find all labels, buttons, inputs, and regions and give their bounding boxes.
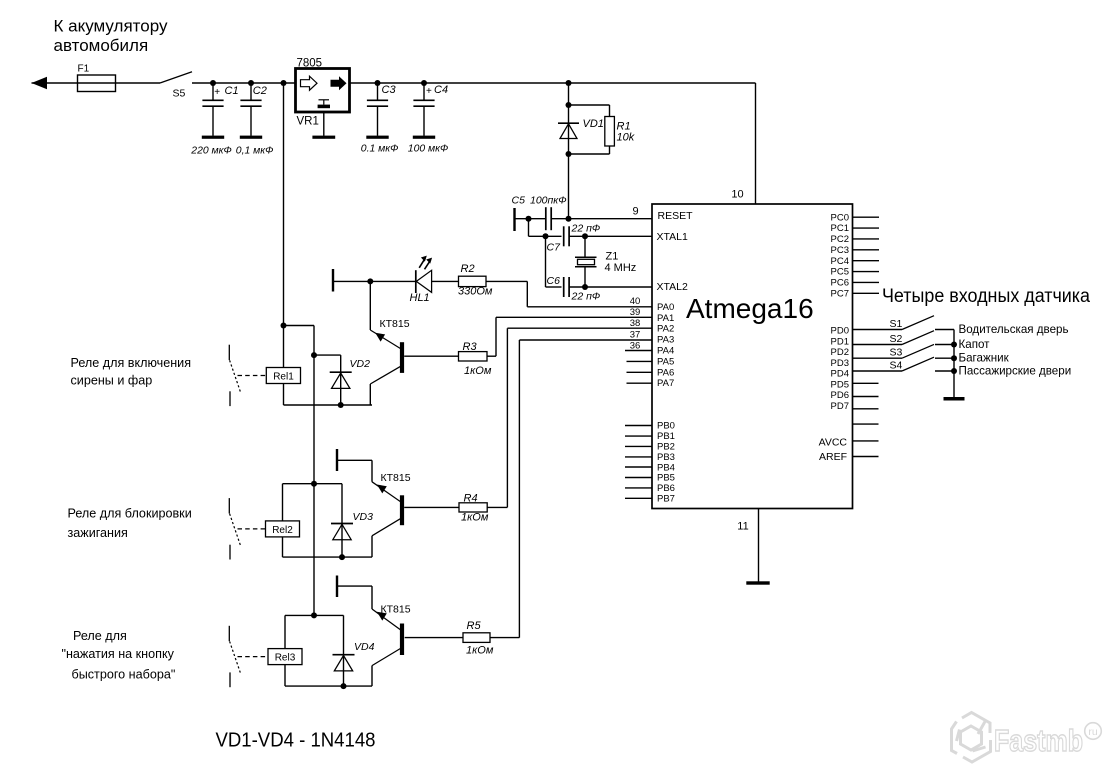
svg-text:C1: C1 [225,85,239,97]
wire - pin 11 GND [758,509,760,582]
fuse F1 [78,75,116,92]
resistor R1 10k [569,104,610,106]
wire - PA1 to R3 [496,316,652,318]
svg-text:VD1-VD4 - 1N4148: VD1-VD4 - 1N4148 [216,730,376,752]
ground - under C1 [202,136,224,139]
transistor KT815 - base bar [400,342,404,373]
svg-text:Rel2: Rel2 [272,525,293,536]
svg-text:Реле для включения: Реле для включения [71,356,192,370]
wire - C4 top lead [423,83,425,100]
wire - PB2 stub [625,445,652,447]
LED HL1 [415,270,417,293]
svg-text:VD1: VD1 [583,118,604,130]
ground - pin 11 [746,581,769,584]
svg-text:C2: C2 [253,85,267,97]
svg-text:Реле для блокировки: Реле для блокировки [68,507,192,521]
wire - C2 bottom lead [250,106,252,136]
wire - down from C5 node [528,219,530,237]
svg-text:R4: R4 [464,493,478,505]
svg-text:PA1: PA1 [657,313,674,324]
node - junction dot Rel1 top [281,323,287,329]
wire - PC1 stub [853,227,880,229]
wire - PC4 stub [853,260,880,262]
node - junction dot transistor collector branch [367,278,373,284]
wire - S2 to sensor bus [935,344,954,346]
node - junction dot 12V branch to relays [281,80,287,86]
svg-text:PD4: PD4 [831,369,849,380]
wire - Rel1 bottom rail [284,404,373,406]
wire - Q3 emitter down [371,666,373,687]
svg-text:PC3: PC3 [831,245,849,256]
svg-text:PA2: PA2 [657,324,674,335]
wire - PC7 stub [853,292,880,294]
svg-text:автомобиля: автомобиля [54,36,149,55]
wire - PA4 stub [625,350,652,352]
switch contact - lower lead [229,672,231,687]
wire - Q1 emitter down [369,384,371,405]
node - junction dot VD4 bottom [341,683,347,689]
wire - C1 bottom lead [212,106,214,136]
ground - under C2 [240,136,262,139]
wire - PB3 stub [625,456,652,458]
wire - to LED [333,280,416,282]
wire - PA6 stub [627,371,653,373]
diode VD2 - cathode bar [330,371,352,373]
ground - VR1 [312,136,335,139]
capacitor C4 plates [413,99,434,101]
svg-text:+: + [214,87,220,98]
svg-text:ru: ru [1088,726,1097,738]
diode VD3 - triangle [333,524,351,539]
svg-text:VD3: VD3 [353,511,374,523]
wire - PD2 to switch S3 [853,357,903,359]
svg-text:10k: 10k [617,132,635,144]
ground - under C4 [413,136,435,139]
node - watermark logo [952,713,991,763]
svg-text:36: 36 [630,340,641,351]
ground - sensor bus [944,397,965,401]
wire - C5 left [515,218,546,220]
svg-text:PB2: PB2 [657,441,675,452]
switch S3 - blade [902,344,934,358]
relay Rel3 - coil top lead [284,615,286,648]
ground - under C3 [366,136,388,139]
svg-text:0,1 мкФ: 0,1 мкФ [236,146,274,157]
wire - PB6 stub [625,487,652,489]
wire - Rel2 bottom rail [283,556,373,558]
wire - PA3 to R5 [519,339,652,341]
svg-text:22 пФ: 22 пФ [571,291,601,303]
svg-text:Z1: Z1 [606,251,619,263]
LED HL1 - emission arrows [419,258,425,268]
relay Rel2 - coil bottom lead [282,537,284,557]
wire - C5 to RESET pin 9 [551,218,652,220]
wire - PD1 to switch S2 [853,344,903,346]
node - terminal bar at C5 [513,208,515,231]
wire - PD4 stub [853,382,879,384]
capacitor C3 plates [367,99,388,101]
svg-text:R5: R5 [467,620,482,632]
wire - C3 bottom lead [377,106,379,136]
wire - R5 to transistor base [405,637,463,639]
svg-text:S3: S3 [890,347,903,359]
wire - PB0 stub [625,425,652,427]
capacitor C6 plates [563,277,565,297]
wire - LED to R2 [432,280,459,282]
node - terminal bar at HL1 feed [332,269,334,292]
wire - pin 10 VCC from 5V rail [755,83,757,204]
wire - R4 to transistor base [404,506,459,508]
svg-text:КТ815: КТ815 [381,472,411,484]
wire - PA7 stub [627,382,653,384]
wire - C6 to XTAL2 [569,286,652,288]
wire - PB7 stub [625,497,652,499]
wire - PD6 stub [853,408,879,410]
wire - PC6 stub [853,281,880,283]
arrow - to battery (left) [32,77,48,89]
svg-text:PB6: PB6 [657,483,675,494]
svg-text:38: 38 [630,318,641,329]
svg-text:S5: S5 [173,88,186,100]
wire - Rel1 top to distribution [284,325,315,327]
capacitor C1 plates [202,99,223,101]
svg-text:C5: C5 [512,195,526,207]
node - junction dot S4 bus [951,368,957,374]
switch S1 - blade [902,316,934,330]
capacitor C2 plates [240,99,261,101]
relay Rel2 - coil top lead [282,484,284,521]
wire - dashed link to relay coil [238,528,267,530]
svg-text:40: 40 [630,296,641,307]
svg-text:XTAL2: XTAL2 [657,281,688,293]
diode VD4 - triangle [334,656,352,671]
wire - PA5 stub [627,360,653,362]
svg-text:PD1: PD1 [831,336,849,347]
svg-text:PB7: PB7 [657,494,675,505]
relay Rel1 - coil bottom lead [283,384,285,406]
node - junction dot VD2 tap [311,352,317,358]
svg-text:9: 9 [632,206,638,218]
svg-text:Fastmb: Fastmb [994,723,1083,758]
svg-text:10: 10 [731,189,743,201]
svg-text:"нажатия на кнопку: "нажатия на кнопку [62,647,175,661]
svg-text:PC1: PC1 [831,223,849,234]
switch contact - blade (dotted) [230,641,241,672]
node - junction dot C4 [421,80,427,86]
transistor KT815 - collector lead [370,330,400,349]
switch contact - lower lead [229,391,231,406]
wire - Rel2 top rail [283,483,343,485]
svg-text:PA4: PA4 [657,346,674,357]
svg-text:0.1 мкФ: 0.1 мкФ [361,143,399,154]
switch contact - upper lead [228,626,230,641]
svg-text:PA0: PA0 [657,302,674,313]
svg-text:R3: R3 [463,341,478,353]
wire - C3 top lead [377,83,379,100]
wire - PC0 stub [853,216,880,218]
wire - PD0 to switch S1 [853,329,903,331]
svg-text:PD7: PD7 [831,401,849,412]
resistor R5 1kOhm [463,633,490,643]
wire - transistor Q1 collector up to LED node [369,281,371,330]
svg-text:Четыре входных датчика: Четыре входных датчика [882,286,1090,307]
diode VD3 - cathode bar [331,523,353,525]
node - junction dot crystal bottom [582,284,588,290]
wire - Rel3 bottom rail [285,685,372,687]
svg-text:PB3: PB3 [657,452,675,463]
svg-text:PB0: PB0 [657,421,675,432]
node - junction dot VD1 branch [566,80,572,86]
svg-text:Водительская дверь: Водительская дверь [959,323,1069,336]
node - junction dot VD2 bottom [338,402,344,408]
capacitor C7 plates [563,226,565,246]
svg-text:PB4: PB4 [657,462,675,473]
svg-text:AREF: AREF [819,451,847,463]
svg-text:PD0: PD0 [831,326,849,337]
node - junction dot Rel2 top [311,481,317,487]
svg-text:220 мкФ: 220 мкФ [190,146,232,157]
wire - S1 to sensor bus [935,329,954,331]
svg-text:зажигания: зажигания [68,526,128,540]
node - junction dot VD1 bottom [566,151,572,157]
svg-text:быстрого набора": быстрого набора" [72,668,176,682]
wire - S5 to regulator input [192,82,296,84]
resistor R3 1kOhm [459,352,488,361]
crystal Z1 4MHz [584,236,586,256]
node - junction dot Rel3 top [311,612,317,618]
wire - PB5 stub [625,477,652,479]
wire - terminal to Q3 [337,585,372,587]
wire - C2 top lead [250,83,252,100]
svg-text:XTAL1: XTAL1 [657,231,688,243]
relay Rel1 - coil box [266,368,300,384]
wire - AREF stub [853,456,879,458]
wire - dashed link to relay coil [238,656,267,658]
svg-text:7805: 7805 [297,58,323,70]
wire - to C7 [529,235,562,237]
switch contact - upper lead [228,498,230,513]
wire - C4 bottom lead [423,106,425,136]
wire - PD3 to switch S4 [853,370,903,372]
svg-text:S4: S4 [890,360,903,372]
node - junction dot C2 [248,80,254,86]
transistor KT815 - arrow [377,612,387,621]
regulator VR1 - output arrow (filled) [331,76,347,90]
resistor R4 1kOhm [459,503,487,512]
transistor KT815 - base bar [400,624,404,656]
svg-text:PC0: PC0 [831,212,849,223]
svg-text:100 мкФ: 100 мкФ [408,143,449,154]
node - junction dot C5 left [526,216,532,222]
wire - R3 to transistor base [404,355,458,357]
node - terminal bar Q3 collector [336,576,338,598]
svg-text:F1: F1 [78,64,90,75]
relay Rel2 - coil box [266,521,300,537]
svg-text:PC4: PC4 [831,256,849,267]
svg-text:Atmega16: Atmega16 [686,293,814,324]
node - junction dot S2 bus [951,342,957,348]
svg-text:11: 11 [737,521,748,533]
wire - R2 to PA0 [486,280,527,282]
svg-text:C4: C4 [434,84,448,96]
wire - PB1 stub [625,435,652,437]
resistor R2 330ohm [459,276,487,286]
svg-text:1кОм: 1кОм [464,365,492,377]
transistor KT815 - arrow [375,333,385,342]
svg-text:39: 39 [630,307,641,318]
svg-text:КТ815: КТ815 [381,604,411,616]
wire - S3 to sensor bus [935,357,954,359]
transistor KT815 - collector lead [372,482,400,502]
diode VD4 vertical lead [343,615,345,686]
svg-text:PC5: PC5 [831,267,849,278]
wire - 5V to reset network [568,83,570,219]
svg-text:VR1: VR1 [297,116,319,128]
svg-text:1кОм: 1кОм [466,645,494,657]
wire - 12V distribution vertical (Rel1..Rel2) [313,326,315,484]
diode VD3 vertical lead [341,484,343,557]
wire - PA2 to R4 [507,327,652,329]
wire - 5V rail [350,82,756,84]
wire - terminal to Q2 [337,459,372,461]
svg-text:сирены и фар: сирены и фар [71,374,153,388]
wire - main 12V feed [32,82,161,84]
node - watermark ru badge [1085,723,1102,740]
wire - Q2 emitter down [371,536,373,557]
wire - AVCC stub [853,440,879,442]
svg-text:КТ815: КТ815 [380,318,410,330]
svg-text:PA6: PA6 [657,367,674,378]
svg-text:S1: S1 [890,318,903,330]
svg-text:C6: C6 [547,275,561,287]
svg-text:PC2: PC2 [831,234,849,245]
wire - sensor common bus [953,330,955,399]
relay Rel1 - coil top lead [283,326,285,368]
node - junction dot C7/C6 branch [543,233,549,239]
switch S2 - blade [902,331,934,345]
svg-text:Rel3: Rel3 [275,653,296,664]
svg-text:Капот: Капот [959,338,991,351]
svg-text:RESET: RESET [658,210,694,222]
diode VD1 [558,122,579,124]
wire - C1 top lead [212,83,214,100]
svg-text:R2: R2 [461,263,475,275]
svg-text:PB1: PB1 [657,431,675,442]
regulator VR1 7805 - body [296,69,350,113]
node - junction dot VD3 bottom [339,554,345,560]
wire - to C6 [546,286,562,288]
svg-text:PA5: PA5 [657,356,674,367]
svg-text:PD6: PD6 [831,390,849,401]
svg-text:PD2: PD2 [831,347,849,358]
wire - Rel3 top rail [285,614,344,616]
svg-text:S2: S2 [890,333,903,345]
transistor KT815 - emitter lead [372,519,400,536]
regulator VR1 - input arrow (open) [301,76,318,90]
diode VD4 - cathode bar [333,654,355,656]
regulator VR1 - inner ground symbol [319,99,330,101]
svg-text:330Ом: 330Ом [458,285,493,297]
node - junction dot crystal top [582,233,588,239]
wire - PC2 stub [853,238,880,240]
svg-text:22 пФ: 22 пФ [571,223,601,235]
switch contact - upper lead [228,345,230,360]
capacitor C5 plates [545,207,547,230]
svg-text:PB5: PB5 [657,473,675,484]
wire - 12V down to Rel1 [283,83,285,326]
svg-text:PD3: PD3 [831,358,849,369]
switch S5 - blade [160,72,192,83]
relay Rel3 - coil bottom lead [284,665,286,687]
svg-text:Реле для: Реле для [73,629,127,643]
node - junction dot VD1 top [566,102,572,108]
wire - PD7 stub [853,423,879,425]
diode VD2 - triangle [332,373,350,388]
svg-text:PD5: PD5 [831,379,849,390]
wire - C7 branch down to C6 [545,236,547,287]
svg-text:PC7: PC7 [831,288,849,299]
switch S4 - blade [902,357,934,371]
switch contact - blade (dotted) [230,360,241,391]
wire - PB4 stub [625,466,652,468]
node - junction dot reset net [566,216,572,222]
svg-text:Пассажирские двери: Пассажирские двери [959,365,1072,378]
wire - PD5 stub [853,396,879,398]
svg-text:37: 37 [630,330,641,341]
svg-text:Rel1: Rel1 [273,371,294,382]
svg-text:Багажник: Багажник [959,352,1010,365]
node - junction dot S3 bus [951,355,957,361]
wire - VR1 ground pin [323,112,325,136]
relay Rel3 - coil box [268,649,302,665]
svg-text:100пкФ: 100пкФ [530,195,567,207]
transistor KT815 - arrow [377,485,387,494]
transistor KT815 - emitter lead [372,649,400,666]
node - junction dot C1 [210,80,216,86]
diode VD2 vertical lead [340,355,342,405]
wire - 12V distribution vertical (Rel2..Rel3) [313,484,315,616]
wire - tap to VD2 [314,354,341,356]
svg-text:PA7: PA7 [657,378,674,389]
switch contact - lower lead [229,545,231,560]
svg-text:VD4: VD4 [354,641,375,653]
svg-text:PA3: PA3 [657,335,674,346]
svg-text:HL1: HL1 [410,292,430,304]
wire - dashed link to relay coil [238,375,267,377]
node - terminal bar Q2 collector [336,449,338,471]
transistor KT815 - collector lead [372,609,400,630]
svg-text:PC6: PC6 [831,278,849,289]
svg-text:C3: C3 [382,84,397,96]
svg-text:4 MHz: 4 MHz [605,262,637,274]
node - junction dot C3 [375,80,381,86]
svg-text:AVCC: AVCC [819,437,848,449]
op-amp U1 - Atmega16 body [652,204,853,509]
svg-text:C7: C7 [547,242,562,254]
svg-text:1кОм: 1кОм [461,512,489,524]
transistor KT815 - emitter lead [370,366,400,384]
svg-text:+: + [426,86,432,97]
transistor KT815 - base bar [400,495,404,525]
wire - S4 to sensor bus [935,370,954,372]
svg-text:VD2: VD2 [350,358,371,370]
wire - C7 to XTAL1 [569,235,652,237]
wire - PC3 stub [853,249,880,251]
svg-text:К акумулятору: К акумулятору [54,17,168,36]
wire - PC5 stub [853,271,880,273]
switch contact - blade (dotted) [230,514,241,545]
